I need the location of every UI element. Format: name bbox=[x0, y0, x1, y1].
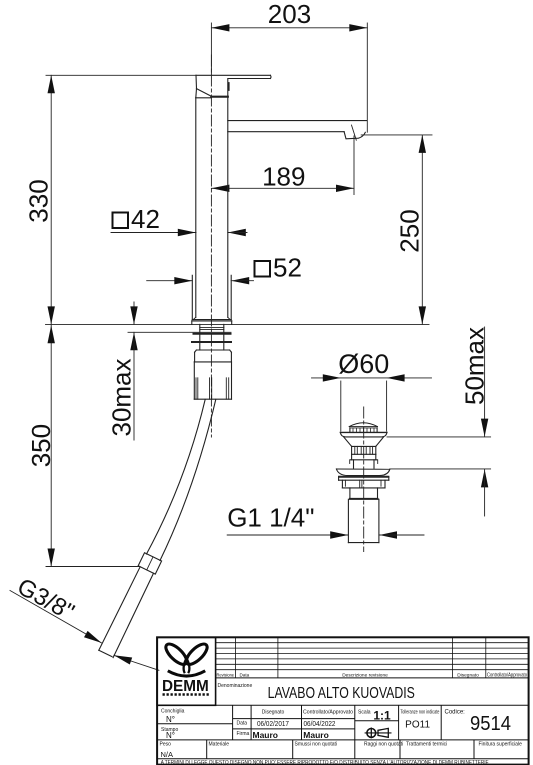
svg-text:Denominazione: Denominazione bbox=[218, 683, 253, 689]
svg-text:Disegnato: Disegnato bbox=[457, 672, 479, 678]
svg-text:DEMM: DEMM bbox=[162, 678, 209, 695]
shank gasket bbox=[192, 334, 231, 342]
dimension 30max vertical bbox=[130, 302, 137, 440]
svg-text:LAVABO ALTO KUOVADIS: LAVABO ALTO KUOVADIS bbox=[268, 685, 415, 703]
drain collar bbox=[350, 488, 378, 499]
svg-text:203: 203 bbox=[268, 0, 311, 29]
faucet centerline bbox=[210, 55, 212, 437]
dimension 330 vertical bbox=[46, 75, 196, 324]
fastening nut bbox=[194, 350, 231, 399]
dimension square52 leader bbox=[147, 277, 254, 284]
disclaimer strip line bbox=[157, 758, 528, 760]
drain gasket dish bbox=[336, 469, 389, 476]
drain taper bbox=[344, 437, 384, 446]
svg-text:Revisione: Revisione bbox=[217, 672, 235, 677]
svg-text:Ø60: Ø60 bbox=[338, 349, 389, 379]
drain upper body bbox=[350, 454, 378, 468]
data rows bbox=[233, 718, 355, 720]
middle columns bbox=[232, 705, 234, 740]
svg-text:42: 42 bbox=[131, 204, 160, 234]
denominazione row bottom bbox=[157, 704, 528, 706]
faucet spout bbox=[228, 121, 367, 132]
svg-text:30max: 30max bbox=[107, 358, 137, 436]
svg-text:Controllato/Approvato: Controllato/Approvato bbox=[303, 710, 353, 716]
svg-text:52: 52 bbox=[273, 253, 302, 283]
svg-text:Codice:: Codice: bbox=[445, 710, 466, 716]
svg-text:50max: 50max bbox=[460, 327, 490, 405]
svg-text:330: 330 bbox=[24, 179, 54, 222]
drain rim dish bbox=[340, 432, 387, 437]
svg-text:Disegnato: Disegnato bbox=[262, 710, 285, 716]
dimension diameter60 bbox=[312, 374, 432, 431]
svg-text:1:1: 1:1 bbox=[373, 709, 391, 723]
svg-text:350: 350 bbox=[26, 424, 56, 467]
dimension G3/8 leader with arrows bbox=[10, 591, 159, 671]
faucet base plate bbox=[192, 321, 232, 325]
svg-text:A TERMINI DI LEGGE QUESTO DISE: A TERMINI DI LEGGE QUESTO DISEGNO NON PU… bbox=[161, 760, 489, 765]
svg-text:Raggi non quotati: Raggi non quotati bbox=[364, 742, 403, 748]
dimension G1 1/4 leader bbox=[227, 531, 424, 538]
dimension 350 vertical bbox=[46, 325, 140, 566]
bottom row columns bbox=[206, 740, 208, 759]
faucet aerator bbox=[344, 125, 365, 140]
dimension 50max vertical bbox=[387, 327, 491, 516]
deck bottom line bbox=[128, 331, 231, 333]
mounting deck line bbox=[46, 323, 430, 325]
dimension square42 leader bbox=[111, 229, 247, 236]
svg-text:Scala: Scala bbox=[358, 710, 371, 716]
svg-text:Descrizione revisione: Descrizione revisione bbox=[342, 672, 388, 678]
faucet base sleeve square52 bbox=[192, 275, 231, 319]
svg-text:9514: 9514 bbox=[470, 712, 511, 735]
hose coupling nut bbox=[138, 553, 161, 574]
dimension text square52 bbox=[255, 253, 302, 283]
svg-text:Peso: Peso bbox=[160, 742, 172, 748]
svg-text:Data: Data bbox=[237, 721, 248, 727]
title block small labels bbox=[160, 672, 528, 759]
svg-text:06/02/2017: 06/02/2017 bbox=[257, 719, 289, 728]
svg-text:Smussi non quotati: Smussi non quotati bbox=[295, 742, 338, 748]
faucet body column bbox=[193, 79, 230, 320]
title block bbox=[157, 637, 528, 764]
svg-text:Mauro: Mauro bbox=[253, 730, 279, 740]
svg-text:N°: N° bbox=[166, 731, 175, 740]
svg-text:Tolleranze non indicate: Tolleranze non indicate bbox=[400, 710, 439, 716]
svg-text:N°: N° bbox=[166, 715, 175, 724]
svg-text:Finitura superficiale: Finitura superficiale bbox=[479, 742, 523, 748]
svg-text:250: 250 bbox=[395, 209, 425, 252]
drain centerline bbox=[363, 407, 365, 552]
flexible hose bbox=[147, 399, 216, 560]
drain castellated ring bbox=[352, 446, 376, 454]
revision table rows bbox=[216, 643, 529, 670]
dimension 203 horizontal bbox=[211, 23, 367, 132]
faucet lever handle bbox=[196, 75, 271, 98]
svg-text:G1 1/4": G1 1/4" bbox=[227, 503, 314, 533]
dimension 189 horizontal bbox=[211, 136, 354, 195]
faucet cartridge collar bbox=[196, 97, 228, 98]
svg-text:Mauro: Mauro bbox=[303, 730, 329, 740]
hose tail tube G3/8 bbox=[99, 567, 154, 657]
svg-text:06/04/2022: 06/04/2022 bbox=[304, 719, 336, 728]
revision table columns bbox=[236, 637, 486, 678]
svg-text:189: 189 bbox=[262, 162, 305, 192]
title block logo box bbox=[157, 637, 216, 705]
svg-text:Controllato/Approvato: Controllato/Approvato bbox=[487, 672, 527, 678]
svg-text:Conchiglia: Conchiglia bbox=[161, 709, 185, 715]
svg-text:PO11: PO11 bbox=[405, 720, 430, 731]
svg-text:Firma: Firma bbox=[237, 731, 250, 737]
DEMM logo dotted rubinetterie bbox=[163, 693, 210, 695]
title block outer frame bbox=[157, 637, 528, 764]
svg-text:Trattamenti termici: Trattamenti termici bbox=[406, 742, 447, 748]
svg-text:N/A: N/A bbox=[161, 750, 174, 759]
drain tail pipe bbox=[348, 499, 379, 542]
dimension text square42 bbox=[113, 204, 160, 234]
svg-text:Data: Data bbox=[240, 672, 250, 677]
drain pop-up cap bbox=[340, 423, 387, 433]
svg-text:Materiale: Materiale bbox=[209, 742, 230, 748]
dimension 250 vertical bbox=[361, 135, 432, 325]
drain locknut bbox=[339, 477, 389, 488]
threaded shank bbox=[200, 324, 224, 350]
DEMM logo butterfly bbox=[163, 641, 211, 676]
projection symbol bbox=[365, 728, 392, 739]
